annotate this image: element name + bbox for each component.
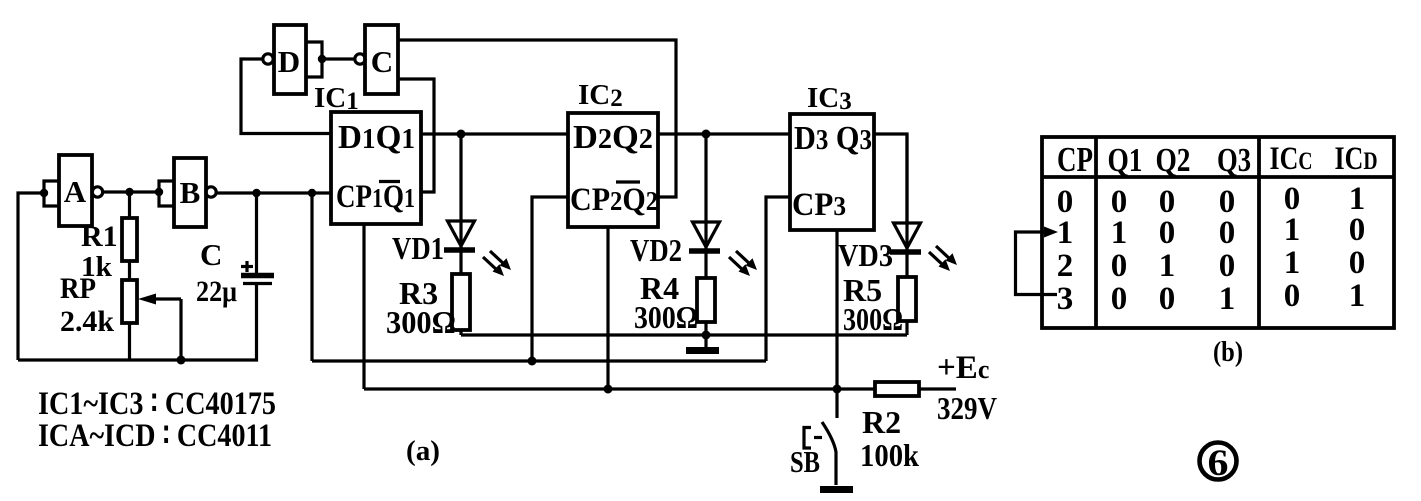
wire CP2 to clock bus	[532, 197, 568, 361]
gate A output bubble	[92, 187, 102, 197]
svg-text:C: C	[371, 44, 393, 79]
wire C bottom input from Q1bar	[398, 79, 434, 192]
resistor R1	[128, 192, 131, 218]
table row CP values	[1057, 184, 1074, 317]
wire left feedback vertical	[18, 193, 43, 360]
svg-text:D2Q2: D2Q2	[573, 119, 653, 156]
wire Q1 output to D2	[421, 132, 568, 135]
node CP2 clock bus junction	[528, 357, 537, 366]
table loop arrow from row3 to row1	[1016, 232, 1058, 295]
svg-text:100k: 100k	[860, 437, 919, 473]
LED VD1 light arrows	[483, 251, 511, 276]
svg-text:VD2: VD2	[630, 232, 682, 268]
table divider CP column	[1094, 137, 1098, 328]
table rows Q1 Q2 Q3 values	[1111, 184, 1236, 317]
node D bracket junction	[318, 55, 326, 63]
ground under R4	[704, 335, 707, 347]
svg-text:1: 1	[1284, 212, 1301, 248]
wire clock bus drop from CP1 line	[310, 193, 313, 361]
svg-text:ICA~ICD ∶ CC4011: ICA~ICD ∶ CC4011	[38, 418, 272, 454]
wire A output to B input	[103, 190, 159, 193]
svg-text:0: 0	[1159, 215, 1176, 251]
pushbutton SB	[835, 389, 838, 418]
wire oscillator bottom rail	[18, 284, 257, 360]
gate C output bubble	[355, 54, 365, 64]
svg-text:SB: SB	[790, 444, 820, 479]
wire LED common cathode line	[461, 333, 907, 336]
svg-text:2: 2	[1057, 248, 1074, 284]
svg-text:0: 0	[1284, 278, 1301, 314]
LED VD3	[905, 134, 908, 277]
IC3 bottom reset pin wire	[835, 230, 838, 389]
svg-text:6: 6	[1208, 443, 1229, 484]
svg-text:Q3: Q3	[1217, 142, 1251, 179]
svg-text:300Ω: 300Ω	[843, 301, 903, 337]
gate C box	[365, 25, 398, 94]
svg-text:22μ: 22μ	[196, 275, 237, 308]
wire C top input from Q2bar	[398, 40, 676, 197]
potentiometer RP wiper arrow	[144, 297, 181, 300]
potentiometer RP	[128, 261, 131, 280]
svg-text:0: 0	[1111, 248, 1128, 284]
svg-text:Q1: Q1	[1108, 142, 1143, 179]
svg-text:CP: CP	[1057, 140, 1093, 179]
gate D output bubble	[263, 54, 273, 64]
svg-text:RP: RP	[60, 272, 96, 305]
svg-text:D3 Q3: D3 Q3	[794, 120, 872, 157]
gate B input bracket	[159, 181, 174, 206]
gate A box	[59, 155, 92, 226]
pushbutton SB actuator	[804, 428, 811, 449]
table outer frame	[1042, 137, 1394, 328]
flip-flop IC1 box	[331, 112, 421, 224]
gate B box	[174, 158, 206, 227]
svg-text:0: 0	[1349, 212, 1366, 248]
svg-text:2.4k: 2.4k	[60, 305, 114, 338]
flip-flop IC3 box	[790, 114, 874, 230]
gate D input bracket	[306, 42, 322, 77]
wire D output to D1 input	[241, 59, 331, 134]
svg-text:329V: 329V	[937, 390, 997, 426]
capacitor C	[255, 193, 258, 273]
capacitor C polarity plus	[241, 265, 253, 268]
IC2 bottom reset pin wire	[606, 227, 609, 389]
svg-text:(a): (a)	[406, 436, 440, 467]
node Q2 to VD2 junction	[702, 130, 711, 139]
table header separator	[1042, 175, 1394, 179]
svg-text:+Ec: +Ec	[937, 350, 989, 386]
IC1 bottom reset pin wire	[362, 224, 365, 389]
svg-text:R2: R2	[862, 404, 901, 440]
svg-text:CP1Q1: CP1Q1	[336, 179, 415, 215]
table rows ICc ICd values	[1284, 181, 1366, 314]
svg-text:0: 0	[1219, 248, 1236, 284]
svg-text:D1Q1: D1Q1	[338, 119, 415, 156]
gate D box	[274, 25, 306, 94]
LED VD2	[704, 134, 707, 278]
node R4 to common line junction	[702, 331, 711, 340]
resistor R4	[697, 278, 715, 322]
svg-text:1: 1	[1219, 281, 1236, 317]
svg-text:(b): (b)	[1213, 337, 1243, 368]
flip-flop IC2 box	[568, 113, 658, 227]
LED VD2 light arrows	[729, 251, 757, 276]
wire D inputs to C output	[322, 57, 354, 60]
node clock drop junction	[308, 189, 316, 197]
wire B output to CP1	[216, 191, 331, 194]
LED VD3 light arrows	[929, 246, 957, 271]
gate A input bracket	[44, 181, 59, 206]
node A input junction	[40, 189, 48, 197]
node IC2 reset junction	[604, 385, 613, 394]
svg-text:0: 0	[1219, 215, 1236, 251]
wire reset bus	[364, 387, 875, 390]
table divider Q columns	[1257, 137, 1261, 328]
svg-text:CP3: CP3	[792, 187, 846, 223]
svg-text:300Ω: 300Ω	[386, 304, 456, 340]
wire R2 to Ec supply	[919, 387, 956, 390]
resistor R3	[452, 274, 470, 330]
svg-text:C: C	[200, 237, 222, 272]
svg-text:1: 1	[1159, 248, 1176, 284]
svg-text:1: 1	[1349, 278, 1366, 314]
gate B output bubble	[206, 187, 216, 197]
LED VD1	[459, 134, 462, 274]
node B bracket junction	[155, 188, 163, 196]
node Q1 to VD1 junction	[457, 130, 466, 139]
node IC3 reset and SB junction	[833, 385, 842, 394]
svg-text:1: 1	[1057, 215, 1074, 251]
svg-text:B: B	[180, 175, 201, 210]
svg-text:1: 1	[1284, 245, 1301, 281]
svg-text:A: A	[64, 174, 87, 209]
svg-text:Q2: Q2	[1156, 142, 1191, 179]
svg-text:IC1~IC3 ∶ CC40175: IC1~IC3 ∶ CC40175	[38, 386, 276, 422]
wire clock bus	[312, 359, 766, 362]
svg-text:0: 0	[1111, 281, 1128, 317]
svg-text:1: 1	[1111, 215, 1128, 251]
wire Q2 output to D3	[658, 132, 790, 135]
node R1 top junction	[125, 188, 133, 196]
svg-text:VD3: VD3	[838, 237, 893, 273]
node RP wiper to rail junction	[177, 356, 186, 365]
svg-text:0: 0	[1159, 281, 1176, 317]
svg-text:D: D	[278, 44, 300, 79]
node capacitor top junction	[252, 189, 260, 197]
svg-text:3: 3	[1057, 281, 1074, 317]
svg-text:300Ω: 300Ω	[634, 299, 698, 335]
svg-text:R1: R1	[81, 220, 118, 253]
ground under SB	[820, 486, 853, 493]
svg-text:VD1: VD1	[392, 230, 444, 266]
svg-text:CP2Q2: CP2Q2	[570, 182, 658, 218]
svg-text:0: 0	[1349, 245, 1366, 281]
wire Q3 output to VD3	[874, 134, 907, 223]
wire CP3 to clock bus	[766, 197, 790, 361]
figure number circled 6	[1200, 443, 1237, 480]
resistor R2	[875, 382, 919, 396]
resistor R5	[898, 277, 916, 321]
